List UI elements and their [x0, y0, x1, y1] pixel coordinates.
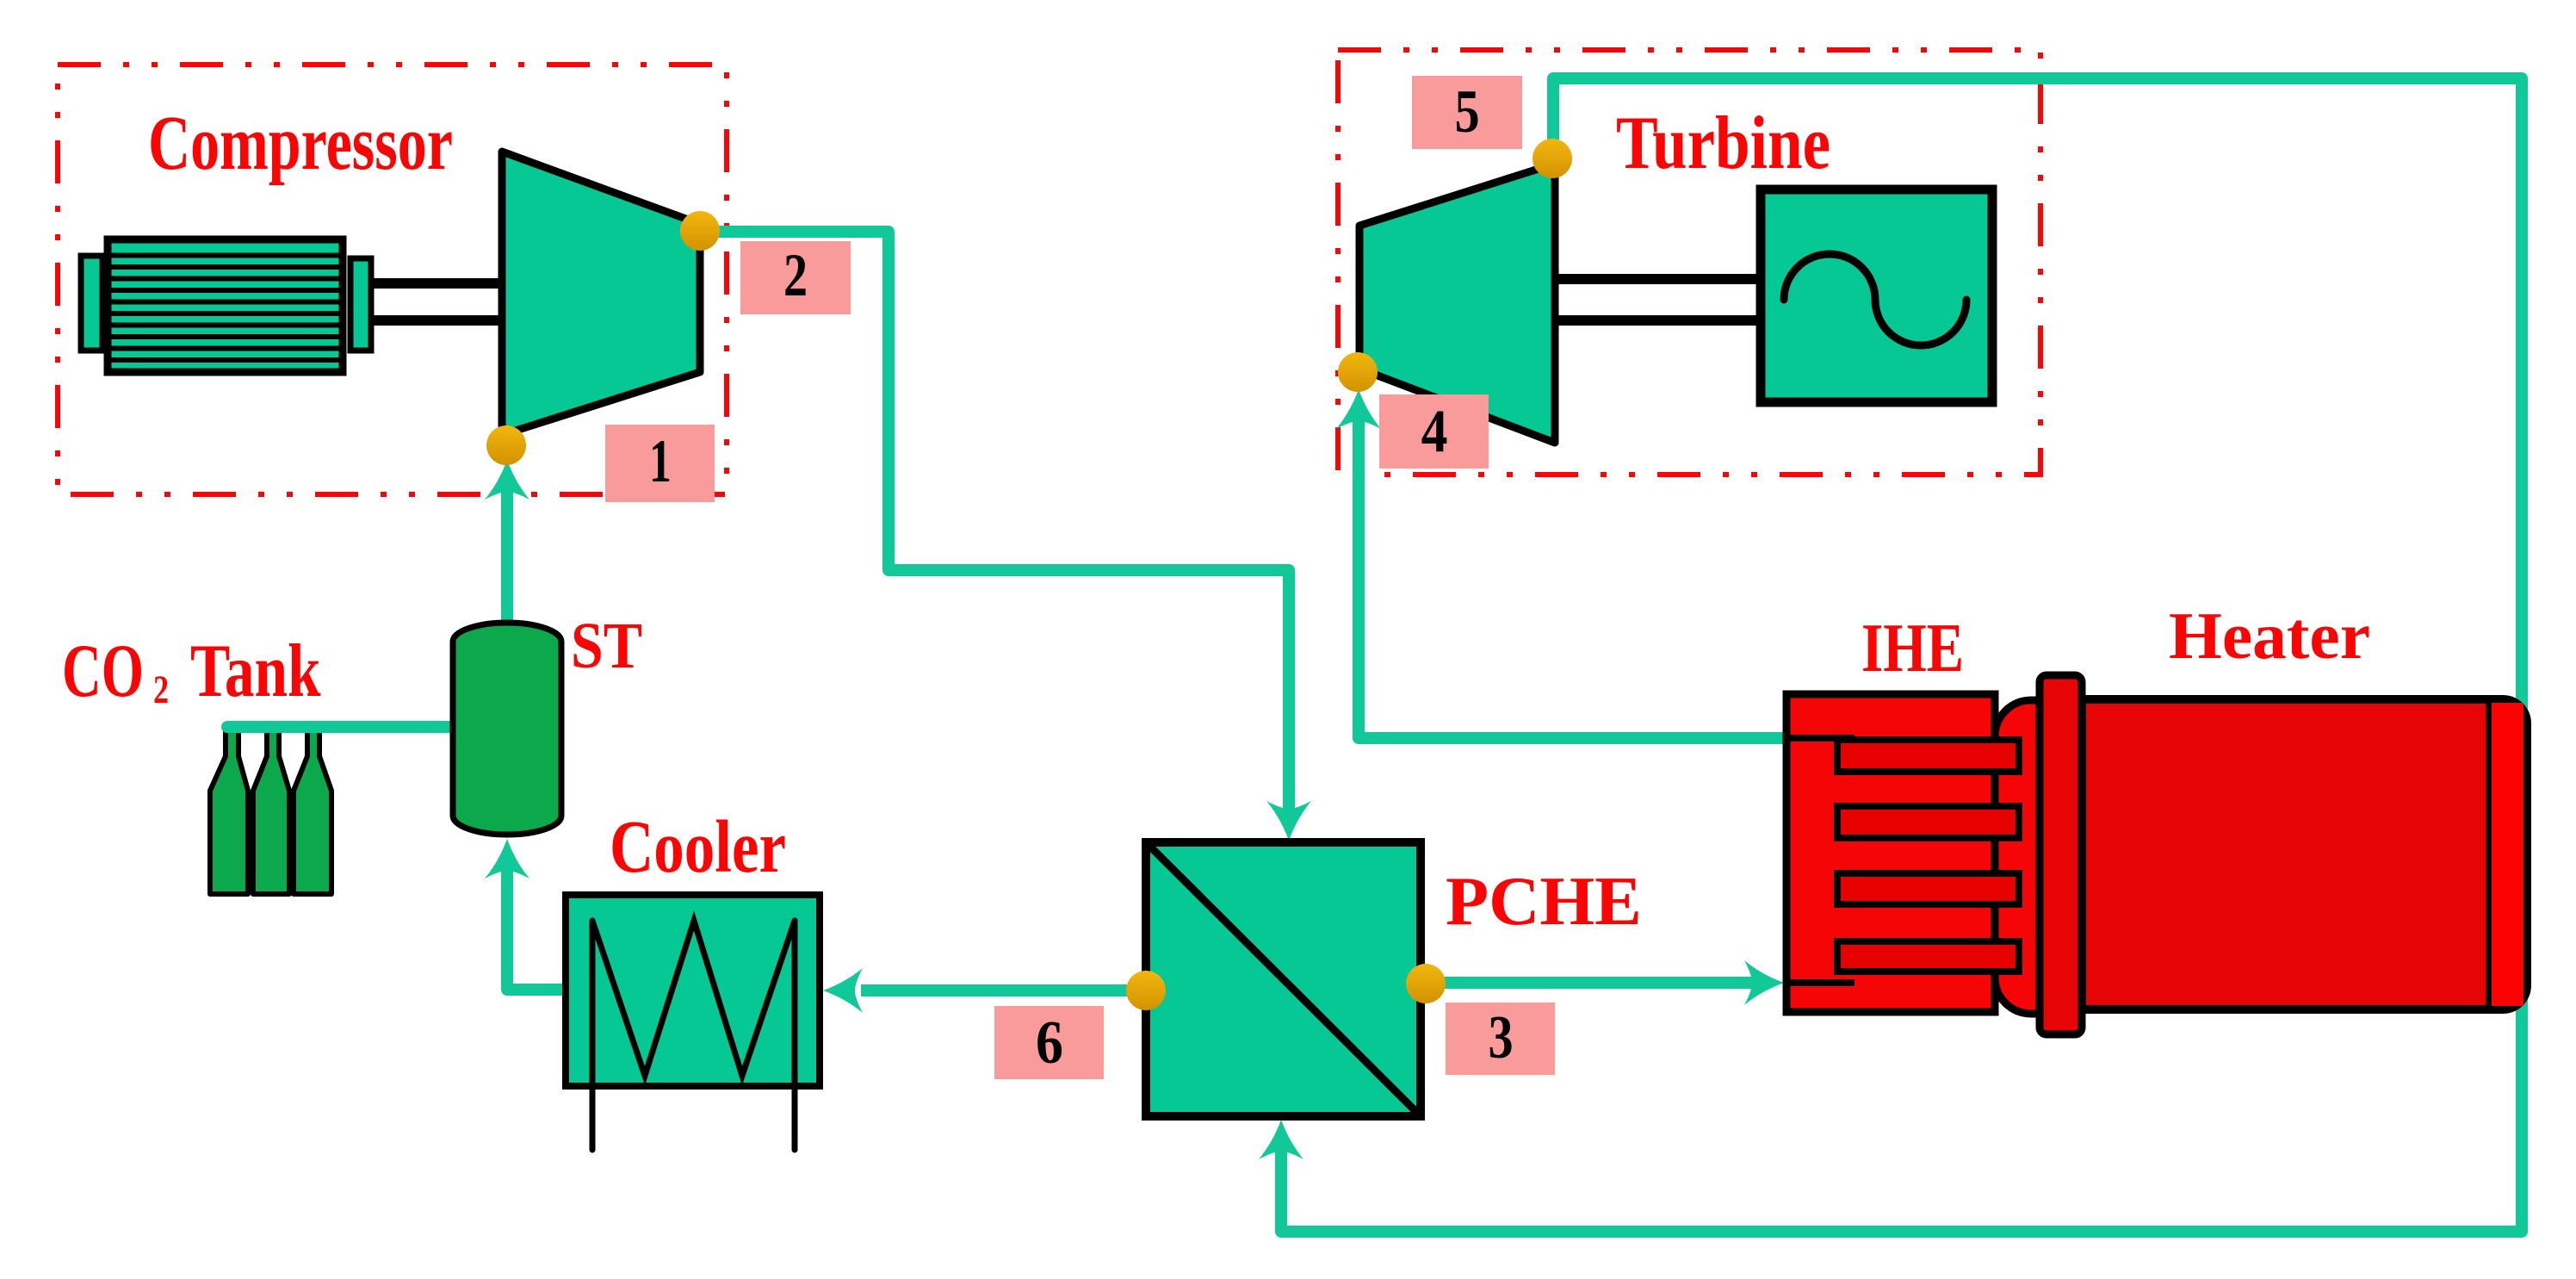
- svg-text:1: 1: [649, 428, 672, 495]
- svg-text:2: 2: [153, 668, 169, 713]
- svg-text:ST: ST: [571, 609, 642, 681]
- svg-text:Tank: Tank: [190, 629, 320, 713]
- svg-text:Turbine: Turbine: [1616, 102, 1830, 185]
- svg-text:CO: CO: [62, 629, 144, 713]
- svg-text:PCHE: PCHE: [1446, 861, 1642, 939]
- svg-text:Cooler: Cooler: [610, 805, 786, 888]
- svg-text:2: 2: [783, 241, 808, 309]
- svg-text:Heater: Heater: [2169, 599, 2370, 673]
- svg-text:4: 4: [1421, 398, 1448, 465]
- svg-text:3: 3: [1488, 1004, 1513, 1072]
- svg-text:6: 6: [1036, 1009, 1063, 1077]
- svg-text:5: 5: [1454, 78, 1479, 146]
- svg-text:Compressor: Compressor: [148, 101, 453, 186]
- svg-text:IHE: IHE: [1861, 609, 1964, 686]
